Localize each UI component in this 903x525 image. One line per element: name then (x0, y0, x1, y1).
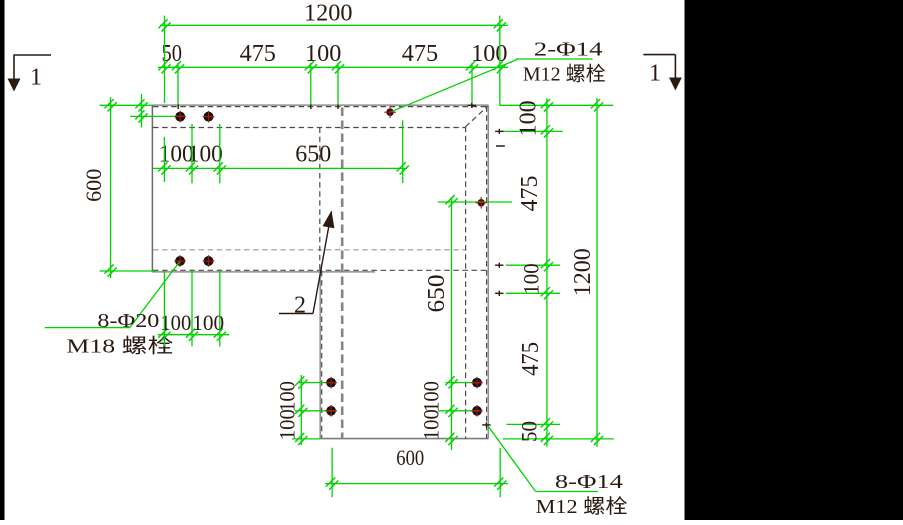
svg-text:1200: 1200 (304, 1, 353, 27)
svg-text:2-Φ14: 2-Φ14 (534, 39, 603, 61)
svg-text:M18 螺栓: M18 螺栓 (66, 335, 173, 358)
svg-text:100: 100 (419, 381, 444, 412)
svg-text:475: 475 (518, 342, 544, 376)
svg-text:600: 600 (396, 445, 424, 470)
svg-text:1: 1 (30, 65, 42, 91)
svg-text:100: 100 (275, 409, 300, 440)
svg-text:1200: 1200 (570, 248, 596, 296)
svg-text:1: 1 (649, 61, 661, 87)
svg-text:100: 100 (519, 263, 544, 294)
svg-text:8-Φ14: 8-Φ14 (555, 471, 623, 493)
svg-text:475: 475 (402, 41, 438, 67)
svg-text:100: 100 (471, 41, 507, 67)
svg-text:100: 100 (516, 100, 542, 136)
svg-text:50: 50 (517, 421, 542, 442)
svg-text:8-Φ20: 8-Φ20 (97, 310, 159, 332)
svg-text:2: 2 (294, 293, 306, 319)
svg-text:650: 650 (295, 142, 331, 168)
svg-text:M12 螺栓: M12 螺栓 (536, 495, 628, 518)
svg-text:650: 650 (424, 275, 450, 313)
svg-text:100: 100 (275, 381, 300, 412)
svg-text:475: 475 (240, 41, 276, 67)
svg-text:600: 600 (81, 169, 106, 202)
svg-text:M12 螺栓: M12 螺栓 (523, 63, 606, 86)
svg-text:475: 475 (517, 176, 543, 212)
svg-text:100: 100 (419, 409, 444, 440)
svg-text:100: 100 (188, 142, 223, 168)
